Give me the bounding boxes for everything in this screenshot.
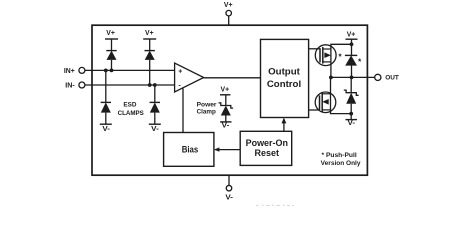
label ESD CLAMPS: [118, 101, 144, 117]
rail V- (output stage): [346, 114, 358, 127]
pin IN+: [64, 67, 85, 75]
svg-text:V-: V-: [225, 195, 233, 202]
node junction D2/IN-: [148, 83, 152, 87]
esd diode D4 (IN- to V-): [149, 85, 161, 133]
esd diode D2 (IN- to V+): [143, 30, 156, 85]
label footnote push-pull: [321, 152, 361, 167]
svg-text:ESD: ESD: [123, 101, 137, 108]
block Power-On Reset: [240, 131, 292, 165]
svg-text:Clamp: Clamp: [197, 109, 216, 116]
wire IN- to op-amp: [85, 84, 175, 86]
node junction D5/D6 output: [350, 76, 354, 80]
node junction Q1 drain / D5: [350, 42, 354, 46]
svg-text:CLAMPS: CLAMPS: [118, 110, 144, 117]
esd diode D1 (IN+ to V+): [105, 30, 118, 71]
svg-text:V+: V+: [347, 31, 356, 38]
svg-text:V-: V-: [348, 120, 356, 127]
svg-text:Output: Output: [268, 67, 300, 77]
svg-text:Control: Control: [267, 79, 301, 89]
pin V+ top: [224, 2, 233, 25]
svg-text:Reset: Reset: [255, 148, 280, 158]
pin V- bottom: [225, 175, 233, 201]
svg-text:V-: V-: [102, 126, 110, 133]
wire arrow Power-On Reset to Bias: [214, 147, 240, 151]
pin OUT: [375, 74, 400, 81]
node junction D3/IN+: [104, 69, 108, 73]
svg-text:V+: V+: [145, 30, 154, 37]
wire gate of Q1: [309, 48, 320, 50]
svg-text:V+: V+: [224, 2, 233, 9]
wire drain of Q1 to V+ rail: [331, 44, 352, 77]
decorative cropped text at bottom edge: [256, 205, 294, 206]
power clamp zener DZ1: [219, 87, 234, 130]
label Power Clamp: [197, 101, 217, 115]
svg-text:V+: V+: [221, 87, 230, 94]
wire gate of Q2: [309, 109, 320, 111]
block Bias: [164, 133, 214, 167]
svg-text:IN+: IN+: [64, 68, 75, 75]
diode D5 (output to V+): [345, 55, 357, 77]
svg-text:OUT: OUT: [385, 75, 399, 82]
svg-text:Power-On: Power-On: [246, 138, 289, 148]
svg-text:* Push-Pull: * Push-Pull: [322, 152, 357, 159]
wire output node to OUT pin: [331, 76, 375, 78]
block Output Control: [261, 39, 309, 117]
zener D6 (output to V-): [344, 77, 359, 113]
wire IN+ to op-amp: [85, 69, 175, 71]
esd diode D3 (IN+ to V-): [100, 70, 112, 132]
wire arrow Power-On Reset to Output Control: [282, 118, 287, 132]
svg-text:Version Only: Version Only: [321, 160, 361, 167]
wire source of Q2 to V- rail: [331, 77, 352, 113]
svg-text:V+: V+: [106, 30, 115, 37]
wire op-amp to Bias: [182, 88, 184, 132]
svg-text:+: +: [178, 69, 182, 76]
mosfet Q1 (top, pull-up): [315, 45, 336, 66]
svg-text:Bias: Bias: [182, 145, 199, 155]
node junction D1/IN+: [110, 69, 114, 73]
wire op-amp output to Output Control: [204, 77, 261, 79]
node junction D4/IN-: [153, 83, 157, 87]
svg-text:V-: V-: [222, 123, 230, 130]
node junction D6 / Q2 source / V- rail: [349, 112, 353, 116]
node junction Q1/Q2 output: [329, 76, 333, 80]
rail V+ (output stage): [346, 31, 358, 55]
mosfet Q2 (bottom, pull-down): [315, 92, 336, 113]
pin IN-: [65, 82, 85, 89]
svg-text:Power: Power: [197, 101, 217, 108]
outer IC boundary box: [92, 25, 367, 175]
svg-text:IN-: IN-: [65, 82, 75, 89]
op-amp U1: [175, 63, 204, 92]
svg-text:V-: V-: [151, 126, 159, 133]
